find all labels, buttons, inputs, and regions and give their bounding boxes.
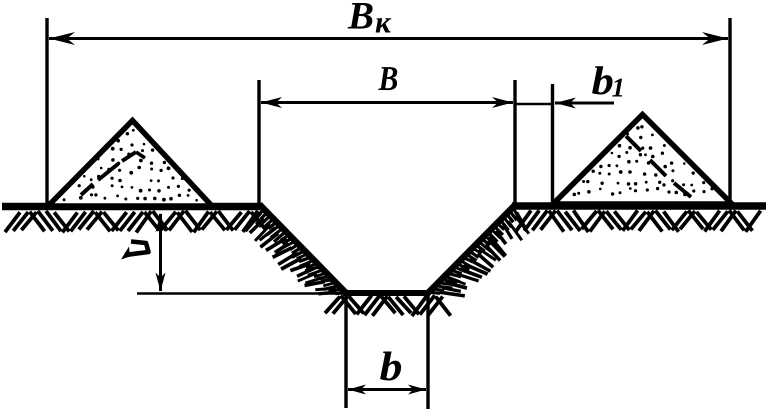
- extension line trench bottom-right (b): [426, 293, 429, 409]
- hatch band: left trench slope: [246, 211, 344, 294]
- extension line right (Bk): [728, 18, 731, 203]
- left spoil bank triangle outline: [48, 121, 212, 207]
- label Bk: [348, 3, 373, 29]
- dimension line B: [261, 101, 513, 104]
- hatch band: ground surface left of trench: [5, 211, 266, 233]
- dimension line h: [159, 214, 162, 291]
- label b: [380, 352, 401, 381]
- extension line spoil bank left edge (b1): [551, 84, 554, 203]
- ground line left segment: [2, 203, 263, 211]
- extension line trench top-right (B / b1): [513, 80, 516, 204]
- label h (rotated): [121, 242, 149, 260]
- dimension line b: [348, 388, 426, 391]
- trench right slope line: [427, 204, 517, 295]
- dimension line b1 tail: [555, 102, 614, 105]
- left spoil bank slope dashes: [81, 152, 145, 195]
- right spoil bank slope dashes: [626, 136, 691, 197]
- right spoil bank triangle outline: [553, 115, 732, 205]
- hatch band: ground surface right of trench: [516, 210, 761, 232]
- trench bottom level line: [137, 292, 350, 295]
- extension line trench bottom-left (b): [344, 293, 347, 408]
- dimension line Bk: [49, 37, 728, 40]
- hatch band: below trench bottom: [325, 295, 451, 316]
- ground line right segment: [512, 202, 766, 210]
- trench bottom line: [343, 290, 430, 296]
- left spoil bank stipple dots: [63, 129, 198, 202]
- extension line left (Bk): [45, 18, 48, 205]
- right spoil bank stipple dots: [573, 125, 714, 196]
- hatch band: right trench slope: [432, 209, 529, 296]
- label B: [378, 67, 397, 90]
- label b1: [592, 66, 612, 94]
- extension line trench top-left (B): [257, 80, 260, 205]
- trench left slope line: [260, 205, 348, 295]
- dimension line b1 connector: [515, 103, 553, 106]
